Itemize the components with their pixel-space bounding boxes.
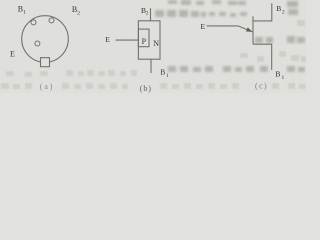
svg-text:(c): (c) <box>255 81 268 90</box>
svg-text:P: P <box>142 37 147 46</box>
svg-text:(a): (a) <box>40 82 55 91</box>
svg-text:N: N <box>153 39 159 48</box>
svg-text:1: 1 <box>282 75 285 81</box>
svg-text:B: B <box>275 70 280 79</box>
svg-text:E: E <box>10 49 15 58</box>
svg-text:B: B <box>276 4 281 13</box>
svg-text:(b): (b) <box>140 84 152 93</box>
svg-text:2: 2 <box>282 9 285 15</box>
svg-text:E: E <box>201 22 206 31</box>
svg-text:B: B <box>160 68 165 77</box>
svg-text:1: 1 <box>23 10 26 16</box>
svg-text:E: E <box>105 35 110 44</box>
svg-text:2: 2 <box>77 11 80 17</box>
